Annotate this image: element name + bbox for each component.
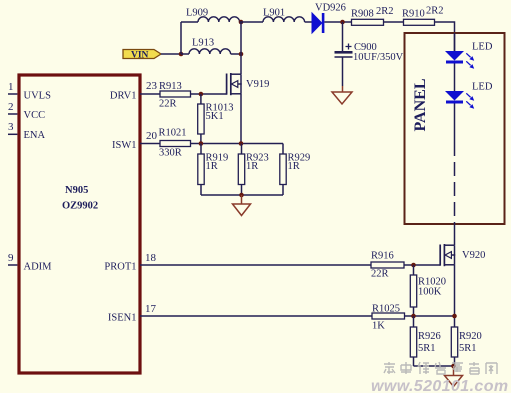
svg-text:ISW1: ISW1: [112, 140, 137, 151]
resistor R926: [410, 316, 440, 366]
LED D2: [445, 82, 493, 109]
wire R910 to panel drop: [435, 22, 455, 51]
svg-text:22R: 22R: [371, 269, 389, 280]
LED D1: [445, 42, 493, 69]
ground under 1R bank: [233, 195, 251, 216]
resistor R913: [159, 81, 191, 110]
wire VIN to junction: [161, 53, 181, 55]
resistor R929: [280, 144, 310, 196]
diode VD926: [312, 3, 346, 34]
svg-text:V920: V920: [462, 250, 485, 261]
wire right riser to V919 drain: [240, 22, 242, 74]
wire diode to R908: [324, 21, 351, 23]
watermark chinese characters (drawn strokes): [384, 362, 497, 374]
wire L901 to diode: [305, 21, 312, 23]
svg-text:2R2: 2R2: [426, 6, 444, 17]
resistor R1013: [198, 94, 234, 144]
svg-text:9: 9: [8, 252, 14, 264]
svg-text:1K: 1K: [372, 321, 385, 332]
node ground junction: [451, 364, 456, 369]
wire V919 source down: [240, 94, 242, 144]
node source junction: [452, 314, 457, 319]
svg-text:R916: R916: [371, 251, 394, 262]
svg-text:VCC: VCC: [24, 110, 46, 121]
svg-text:ENA: ENA: [24, 130, 46, 141]
svg-text:R908: R908: [351, 9, 374, 20]
node gate junction: [411, 263, 416, 268]
wire dashed panel string: [454, 142, 456, 222]
node V919 source junction: [239, 141, 244, 146]
resistor R910: [402, 6, 444, 26]
svg-text:R1021: R1021: [159, 128, 187, 139]
wire ISW1 pin to R1021: [140, 143, 160, 145]
svg-text:1: 1: [8, 81, 14, 93]
svg-text:1R: 1R: [288, 161, 300, 172]
VIN flag: [123, 50, 161, 61]
pin 2 stub: [8, 101, 17, 114]
resistor R916: [371, 251, 404, 280]
svg-text:18: 18: [145, 252, 157, 264]
svg-text:17: 17: [145, 303, 157, 315]
inductor L909: [186, 8, 240, 23]
wire top rail left: [181, 21, 198, 23]
svg-text:VD926: VD926: [315, 3, 346, 14]
wire ISEN1 pin to R1025: [140, 315, 372, 317]
svg-text:OZ9902: OZ9902: [62, 201, 98, 212]
svg-text:ADIM: ADIM: [24, 262, 53, 273]
svg-text:3: 3: [8, 121, 14, 133]
wire R908 to R910: [384, 21, 404, 23]
wire panel drop to LED1: [454, 33, 456, 51]
transistor V919: [227, 73, 270, 95]
node R1013 bottom junction: [199, 141, 204, 146]
svg-text:5K1: 5K1: [206, 111, 224, 122]
svg-text:ISEN1: ISEN1: [108, 313, 137, 324]
svg-text:23: 23: [146, 80, 158, 92]
node bottom rail junction: [239, 193, 244, 198]
svg-text:20: 20: [146, 130, 158, 142]
inductor L901: [263, 8, 305, 23]
svg-text:330R: 330R: [159, 148, 182, 159]
capacitor C900: [335, 22, 404, 86]
node C900 junction: [340, 20, 345, 25]
node ISEN junction: [411, 314, 416, 319]
svg-text:10UF/350V: 10UF/350V: [353, 52, 404, 63]
node VIN junction: [179, 52, 184, 57]
svg-text:L909: L909: [186, 8, 208, 19]
svg-text:22R: 22R: [159, 99, 177, 110]
wire ISW1 rail: [191, 143, 284, 145]
wire R1025 to V920 source: [405, 315, 455, 317]
wire left riser: [180, 22, 182, 54]
svg-text:L913: L913: [192, 38, 214, 49]
resistor R1021: [159, 128, 191, 159]
resistor R923: [238, 144, 268, 196]
IC U-N905 box: [19, 75, 140, 373]
svg-text:R1025: R1025: [372, 304, 400, 315]
pin 3 stub: [8, 121, 17, 134]
node top-rail junction: [239, 20, 244, 25]
svg-text:UVLS: UVLS: [24, 91, 52, 102]
wire panel exit to V920 drain: [454, 222, 456, 245]
wire R916 to V920 gate: [404, 264, 440, 266]
svg-text:2R2: 2R2: [376, 6, 394, 17]
resistor R1020: [410, 265, 446, 316]
resistor R920: [451, 327, 481, 366]
pin 9 stub: [8, 252, 17, 265]
ground under C900: [332, 86, 352, 104]
svg-text:DRV1: DRV1: [110, 91, 137, 102]
svg-text:2: 2: [8, 101, 14, 113]
wire DRV1 pin to R913: [140, 93, 160, 95]
svg-text:1R: 1R: [206, 161, 218, 172]
resistor R919: [198, 144, 228, 196]
svg-text:LED: LED: [472, 42, 493, 53]
svg-text:100K: 100K: [418, 287, 442, 298]
svg-text:LED: LED: [472, 82, 493, 93]
wire LED2 down solid: [454, 104, 456, 143]
svg-text:PROT1: PROT1: [104, 262, 136, 273]
transistor V920: [440, 244, 485, 266]
ground bottom right: [445, 366, 463, 387]
inductor L913: [181, 38, 241, 55]
pin 1 stub: [8, 81, 17, 94]
svg-text:R913: R913: [159, 81, 182, 92]
svg-text:PANEL: PANEL: [412, 78, 429, 131]
wire PROT1 pin to R916: [140, 264, 371, 266]
wire V920 source down: [454, 265, 456, 327]
resistor R1025: [372, 304, 405, 332]
svg-text:L901: L901: [263, 8, 285, 19]
wire R913 to V919 gate: [191, 93, 227, 95]
resistor R908: [351, 6, 394, 25]
wire R926 bottom to R920 bottom: [414, 365, 455, 367]
PANEL box: [405, 33, 505, 224]
svg-text:www.520101.com: www.520101.com: [371, 378, 509, 393]
svg-text:V919: V919: [246, 79, 269, 90]
node L913 right junction: [239, 52, 244, 57]
svg-text:5R1: 5R1: [418, 343, 436, 354]
wire LED1 to LED2: [454, 64, 456, 92]
wire between L909 and L901: [240, 21, 263, 23]
svg-text:N905: N905: [65, 185, 88, 196]
svg-text:VIN: VIN: [131, 51, 149, 61]
svg-text:R910: R910: [402, 9, 425, 20]
node DRV1 junction: [199, 92, 204, 97]
svg-text:5R1: 5R1: [459, 343, 477, 354]
svg-text:1R: 1R: [246, 161, 258, 172]
wire bottom rail of 1R bank: [201, 194, 283, 196]
svg-text:R920: R920: [459, 331, 482, 342]
svg-text:R926: R926: [418, 331, 441, 342]
